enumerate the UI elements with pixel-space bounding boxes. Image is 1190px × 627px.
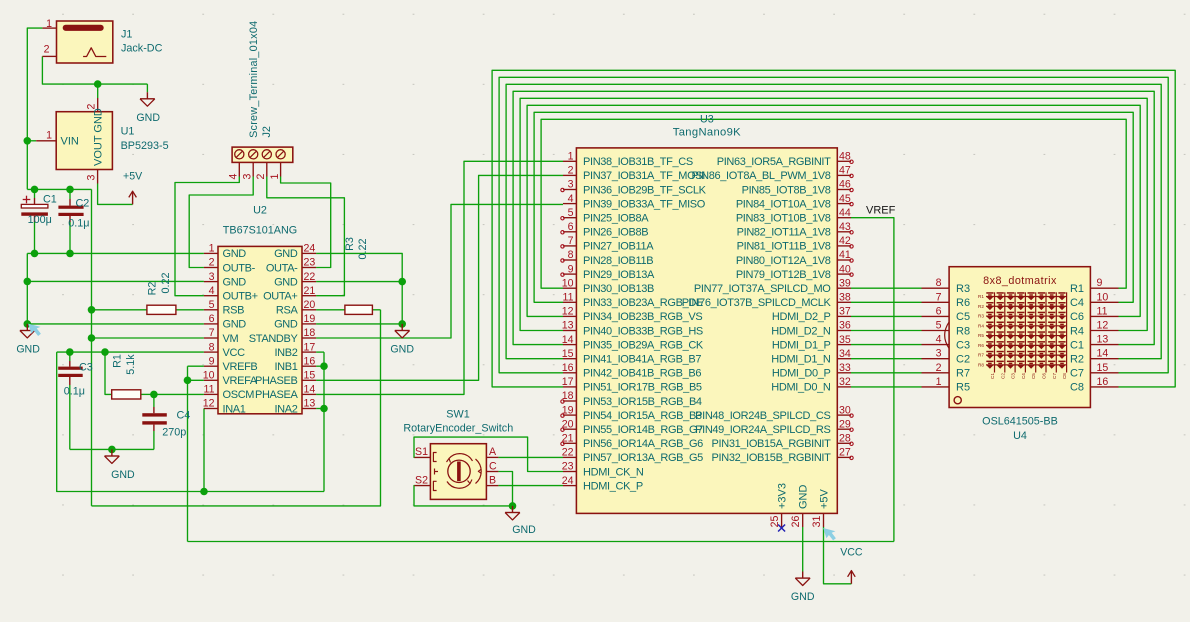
U4 pin 8 (R3): [922, 277, 971, 295]
svg-text:11: 11: [204, 384, 215, 396]
U3 pin 7 (PIN27_IOB11A): [563, 235, 654, 253]
svg-text:HDMI_D0_P: HDMI_D0_P: [772, 368, 831, 380]
U3 pin 30 (PIN48_IOR24B_SPILCD_CS): [695, 404, 851, 422]
svg-text:3: 3: [936, 348, 942, 360]
U4 left-edge arc: [945, 322, 949, 349]
svg-text:5: 5: [568, 207, 574, 219]
wire: U2 pin10 VREFA: [188, 379, 204, 381]
U3 pin 2 (PIN37_IOB31A_TF_MOSI): [563, 165, 705, 183]
U3 pin 23 (HDMI_CK_N): [562, 461, 644, 479]
U3 pin 22 (PIN57_IOR13A_RGB_G5): [562, 447, 703, 465]
svg-text:PIN54_IOR15A_RGB_B3: PIN54_IOR15A_RGB_B3: [583, 410, 702, 422]
svg-text:OUTB+: OUTB+: [223, 291, 258, 303]
svg-text:RotaryEncoder_Switch: RotaryEncoder_Switch: [403, 423, 513, 435]
svg-text:12: 12: [1097, 320, 1109, 332]
unconnected circle U3 pin 3: [561, 188, 564, 191]
svg-text:3: 3: [209, 271, 215, 283]
U3 pin 11 (PIN33_IOB23A_RGB_DE): [563, 292, 703, 310]
svg-text:A: A: [489, 446, 497, 458]
junction: C1 bottom: [31, 250, 39, 258]
svg-text:+3V3: +3V3: [776, 483, 788, 509]
svg-text:PIN38_IOB31B_TF_CS: PIN38_IOB31B_TF_CS: [583, 156, 693, 168]
capacitor C3 0.1u: [58, 361, 82, 385]
svg-text:PHASEA: PHASEA: [255, 389, 299, 401]
wire: U2 pin22 GND: [316, 281, 402, 283]
wire: U3 pin32 to dot-matrix pin1: [851, 386, 922, 388]
svg-text:GND: GND: [223, 319, 247, 331]
U3 pin 19 (PIN54_IOR15A_RGB_B3): [562, 404, 702, 422]
wire: R1 left lead and VCC tap: [105, 352, 112, 394]
svg-text:INB1: INB1: [274, 361, 297, 373]
wire: SW1 S2 to GND junction: [414, 486, 513, 506]
svg-text:+5V: +5V: [818, 488, 830, 509]
unconnected circle U3 pin 21: [561, 442, 564, 445]
wire: GND rail to U2 pin1: [27, 252, 204, 254]
wire: U3 pin36 to dot-matrix pin5: [851, 330, 922, 332]
U4 matrix column labels: [990, 373, 1067, 379]
svg-text:10: 10: [562, 277, 574, 289]
svg-text:19: 19: [304, 313, 316, 325]
capacitor C2 0.1u: [58, 199, 83, 222]
svg-text:4: 4: [228, 174, 240, 180]
svg-text:43: 43: [839, 221, 851, 233]
svg-text:HDMI_D1_P: HDMI_D1_P: [772, 339, 831, 351]
wire: U2 pin3 GND: [27, 280, 204, 282]
svg-text:PIN37_IOB31A_TF_MOSI: PIN37_IOB31A_TF_MOSI: [583, 170, 705, 182]
resistor R2 0.22: [147, 305, 176, 314]
svg-text:3: 3: [568, 179, 574, 191]
wire: C2 bottom lead: [69, 222, 71, 253]
svg-text:13: 13: [304, 398, 316, 410]
svg-text:R2: R2: [978, 304, 984, 309]
U2 pin 20 (RSA): [276, 299, 316, 317]
wire: J2 pin4 to U2 pin4 OUTB+: [175, 177, 239, 296]
wire: U3 pin39 to dot-matrix pin8: [851, 287, 922, 289]
U3 pin 13 (PIN40_IOB33B_RGB_HS): [562, 320, 703, 338]
wire: R2 left lead: [92, 309, 147, 311]
svg-text:PIN31_IOB15A_RGBINIT: PIN31_IOB15A_RGBINIT: [712, 438, 832, 450]
svg-text:4: 4: [568, 193, 574, 205]
svg-text:270p: 270p: [162, 427, 186, 439]
U4 pin 11 (C6): [1070, 305, 1119, 323]
U3 pin 32 (HDMI_D0_N): [771, 376, 851, 394]
unconnected circle U3 right pin row 3: [850, 188, 853, 191]
wire: U3 pin33 to dot-matrix pin2: [851, 372, 922, 374]
U3 pin 29 (PIN49_IOR24A_SPILCD_RS): [695, 418, 851, 436]
wire: C3 bottom lead: [69, 385, 71, 449]
svg-text:C4: C4: [177, 409, 191, 421]
svg-text:PIN30_IOB13B: PIN30_IOB13B: [583, 283, 654, 295]
U2 pin 19 (GND): [274, 313, 316, 331]
svg-text:VM: VM: [223, 333, 239, 345]
svg-text:U3: U3: [700, 114, 714, 126]
svg-text:18: 18: [304, 327, 316, 339]
wire: J2 pin3 to U2 pin2 OUTB-: [189, 177, 253, 268]
svg-text:2: 2: [209, 257, 215, 269]
U3 pin 35 (HDMI_D1_P): [772, 334, 851, 352]
wire: OSCM row to U2 pin11: [154, 393, 204, 395]
U2 pin 6 (GND): [204, 313, 246, 331]
wire: C2 top lead: [69, 189, 71, 199]
U4 pin 16 (C8): [1070, 376, 1119, 394]
svg-text:C: C: [489, 460, 497, 472]
U3 pin 42 (PIN81_IOT11B_1V8): [737, 235, 851, 253]
connector J2 Screw_Terminal_01x04: [232, 147, 293, 176]
junction: R1 / VCC row: [101, 348, 109, 356]
U3 pin 25 (+3V3): [769, 483, 789, 527]
svg-text:R4: R4: [978, 323, 984, 328]
svg-text:20: 20: [304, 299, 316, 311]
wire: VIN bottom run to R3: [92, 310, 381, 506]
svg-text:C3: C3: [1011, 373, 1016, 379]
U3 pin 4 (PIN39_IOB33A_TF_MISO): [563, 193, 706, 211]
U2 pin 9 (VREFB): [204, 355, 258, 373]
svg-text:B: B: [489, 474, 496, 486]
svg-text:8: 8: [209, 341, 215, 353]
svg-text:R3: R3: [344, 237, 356, 251]
unconnected circle U3 pin 7: [561, 245, 564, 248]
U3 pin 5 (PIN25_IOB8A): [563, 207, 649, 225]
svg-text:PIN49_IOR24A_SPILCD_RS: PIN49_IOR24A_SPILCD_RS: [695, 424, 830, 436]
svg-text:29: 29: [839, 418, 851, 430]
ground GND (U2 right): [401, 324, 403, 331]
unconnected circle U3 right pin row 21: [850, 442, 853, 445]
svg-text:PIN82_IOT11A_1V8: PIN82_IOT11A_1V8: [737, 227, 831, 239]
wire: J1 pin1 to VIN rail (left vertical): [27, 28, 42, 189]
svg-text:2: 2: [86, 104, 98, 110]
U2 pin 23 (OUTA-): [266, 257, 316, 275]
U2 pin 5 (RSB): [204, 299, 244, 317]
capacitor C1 100u (polarized): [21, 196, 48, 222]
U4 pin 12 (R4): [1070, 320, 1119, 338]
svg-text:12: 12: [203, 398, 215, 410]
svg-text:2: 2: [255, 174, 267, 180]
U2 pin 15 (PHASEB): [255, 370, 316, 388]
svg-text:15: 15: [304, 370, 316, 382]
svg-text:15: 15: [562, 348, 574, 360]
svg-text:38: 38: [839, 292, 851, 304]
unconnected circle U3 right pin row 19: [850, 414, 853, 417]
ground GND (U3 pin26): [802, 572, 804, 579]
svg-text:7: 7: [936, 291, 942, 303]
svg-text:TangNano9K: TangNano9K: [673, 127, 741, 139]
wire: U3 pin35 to dot-matrix pin4: [851, 344, 922, 346]
unconnected circle U3 right pin row 9: [850, 273, 853, 276]
wire: SW1 C to GND junction: [498, 472, 512, 506]
svg-text:OSL641505-BB: OSL641505-BB: [982, 416, 1058, 428]
wire: U3 pin10 over-the-top to dot-matrix pin9: [541, 119, 1126, 288]
U2 pin 17 (INB2): [274, 341, 316, 359]
wire: U3 pin16 over-the-top to dot-matrix pin15: [499, 77, 1168, 373]
svg-text:PIN48_IOR24B_SPILCD_CS: PIN48_IOR24B_SPILCD_CS: [695, 410, 830, 422]
svg-text:13: 13: [1097, 334, 1109, 346]
svg-text:23: 23: [304, 257, 316, 269]
unconnected circle U3 right pin row 4: [850, 202, 853, 205]
svg-text:13: 13: [562, 320, 574, 332]
svg-text:16: 16: [304, 355, 316, 367]
U4 pin 14 (R2): [1070, 348, 1119, 366]
svg-text:HDMI_CK_N: HDMI_CK_N: [583, 466, 644, 478]
svg-text:VCC: VCC: [840, 547, 863, 559]
unconnected circle U3 pin 9: [561, 273, 564, 276]
svg-text:Jack-DC: Jack-DC: [121, 42, 163, 54]
svg-text:28: 28: [839, 433, 851, 445]
U4 matrix row labels: [978, 294, 984, 367]
svg-text:GND: GND: [274, 319, 298, 331]
svg-text:U4: U4: [1013, 430, 1027, 442]
svg-text:S2: S2: [415, 474, 428, 486]
junction: INA1 / VCC bottom rail: [200, 488, 208, 496]
connector J1 Jack-DC: [42, 21, 112, 63]
svg-text:VREFA: VREFA: [223, 375, 258, 387]
wire: U2 pin16 INB1 link: [316, 365, 324, 367]
svg-text:PIN76_IOT37B_SPILCD_MCLK: PIN76_IOT37B_SPILCD_MCLK: [682, 297, 832, 309]
svg-text:Screw_Terminal_01x04: Screw_Terminal_01x04: [248, 21, 260, 138]
svg-text:1: 1: [46, 18, 52, 30]
svg-text:R6: R6: [978, 343, 984, 348]
svg-text:R1: R1: [112, 354, 124, 368]
svg-text:GND: GND: [791, 591, 815, 603]
mouse cursor (U3 pin31): [823, 528, 836, 540]
display U4 OSL641505-BB 8x8 dot matrix: [949, 267, 1090, 408]
unconnected circle U3 pin 6: [561, 231, 564, 234]
resistor R1 5.1k: [112, 390, 141, 399]
wire: INB vertical x=324: [323, 352, 325, 491]
svg-text:6: 6: [936, 305, 942, 317]
svg-text:C6: C6: [1042, 373, 1047, 379]
svg-text:SW1: SW1: [446, 409, 469, 421]
svg-text:C2: C2: [1000, 373, 1005, 379]
wire: R3 left lead from U2 pin20 RSA: [316, 309, 345, 311]
svg-text:PIN29_IOB13A: PIN29_IOB13A: [583, 269, 655, 281]
svg-text:15: 15: [1097, 362, 1109, 374]
svg-text:C5: C5: [1031, 373, 1036, 379]
U3 pin 9 (PIN29_IOB13A): [563, 263, 655, 281]
svg-text:14: 14: [304, 384, 316, 396]
U3 pin 31 (+5V): [811, 488, 831, 527]
svg-text:40: 40: [839, 263, 851, 275]
svg-text:GND: GND: [274, 276, 298, 288]
mouse cursor (left GND): [28, 324, 41, 336]
svg-text:HDMI_D2_P: HDMI_D2_P: [772, 311, 831, 323]
U3 pin 45 (PIN84_IOT10A_1V8): [736, 193, 851, 211]
svg-text:PIN53_IOR15B_RGB_B4: PIN53_IOR15B_RGB_B4: [583, 396, 702, 408]
ground GND (left rail): [26, 324, 28, 331]
svg-text:26: 26: [790, 516, 802, 528]
svg-text:46: 46: [839, 179, 851, 191]
wire: C1 bottom lead: [34, 222, 36, 253]
svg-text:VIN: VIN: [61, 136, 79, 148]
junction: C2 top: [66, 186, 74, 194]
svg-text:PIN25_IOB8A: PIN25_IOB8A: [583, 213, 649, 225]
U3 pin 28 (PIN31_IOB15A_RGBINIT): [712, 433, 851, 451]
svg-text:9: 9: [568, 263, 574, 275]
U3 pin 6 (PIN26_IOB8B): [563, 221, 648, 239]
svg-text:1: 1: [209, 243, 215, 255]
svg-text:4: 4: [936, 334, 942, 346]
svg-text:1: 1: [936, 376, 942, 388]
svg-text:5: 5: [209, 299, 215, 311]
junction: C1 top: [31, 186, 39, 194]
svg-text:OUTA+: OUTA+: [263, 291, 297, 303]
svg-text:24: 24: [304, 243, 316, 255]
svg-text:4: 4: [209, 285, 215, 297]
svg-text:14: 14: [562, 334, 574, 346]
wire: VREF bottom run: [188, 541, 894, 543]
svg-text:GND: GND: [274, 248, 298, 260]
svg-text:8: 8: [936, 277, 942, 289]
U2 pin 13 (INA2): [274, 398, 316, 416]
U4 pin 2 (R7): [922, 362, 971, 380]
svg-text:J2: J2: [261, 126, 273, 137]
svg-text:INA1: INA1: [223, 403, 246, 415]
wire: VCC row to U2 pin8: [57, 351, 204, 353]
U3 pin 33 (HDMI_D0_P): [772, 362, 851, 380]
svg-text:HDMI_CK_P: HDMI_CK_P: [583, 480, 643, 492]
svg-text:2: 2: [568, 165, 574, 177]
U2 pin 1 (GND): [204, 243, 246, 261]
svg-text:C1: C1: [1070, 339, 1084, 351]
svg-text:PIN32_IOB15B_RGBINIT: PIN32_IOB15B_RGBINIT: [712, 452, 832, 464]
svg-text:C7: C7: [1052, 373, 1057, 379]
svg-text:3: 3: [86, 175, 98, 181]
svg-text:PIN81_IOT11B_1V8: PIN81_IOT11B_1V8: [737, 241, 831, 253]
junction: SW1 GND node: [509, 502, 517, 510]
U2 pin 18 (STANDBY): [249, 327, 316, 345]
wire: GND left rail: [26, 253, 28, 324]
U2 pin 22 (GND): [274, 271, 316, 289]
wire: R1 right lead: [141, 393, 154, 395]
wire: VIN top rail to C1/C2 tops: [27, 188, 91, 190]
svg-text:33: 33: [839, 362, 851, 374]
wire: U2 pin15 PHASEB to U3 pin2: [316, 175, 563, 380]
U4 pin 15 (C7): [1070, 362, 1119, 380]
svg-text:PIN26_IOB8B: PIN26_IOB8B: [583, 227, 648, 239]
svg-text:PIN83_IOT10B_1V8: PIN83_IOT10B_1V8: [736, 213, 831, 225]
svg-text:C7: C7: [1070, 368, 1084, 380]
svg-text:C8: C8: [1070, 382, 1084, 394]
U3 pin 20 (PIN55_IOR14B_RGB_G7): [562, 418, 703, 436]
U3 pin 48 (PIN63_IOR5A_RGBINIT): [717, 151, 851, 169]
svg-text:10: 10: [1097, 291, 1109, 303]
U4 pin 9 (R1): [1070, 277, 1119, 295]
svg-text:C3: C3: [956, 339, 970, 351]
svg-text:9: 9: [209, 355, 215, 367]
wire: U2 pin6 GND: [27, 323, 204, 325]
svg-text:10: 10: [203, 370, 215, 382]
ground GND (C3/C4): [111, 449, 113, 456]
svg-text:C2: C2: [76, 198, 90, 210]
svg-text:R6: R6: [956, 297, 970, 309]
wire: U3 pin26 GND drop: [802, 527, 804, 572]
U3 pin 39 (PIN77_IOT37A_SPILCD_MO): [694, 277, 851, 295]
wire: U2 pin24 GND to right GND: [316, 253, 402, 324]
svg-text:RSB: RSB: [223, 305, 245, 317]
svg-text:3: 3: [241, 174, 253, 180]
U4 bottom-left circle: [954, 397, 961, 404]
wire: U3 pin31 +5V to VCC: [824, 527, 852, 584]
wire: U3 pin34 to dot-matrix pin3: [851, 358, 922, 360]
svg-text:R5: R5: [956, 382, 970, 394]
svg-text:PIN56_IOR14A_RGB_G6: PIN56_IOR14A_RGB_G6: [583, 438, 703, 450]
svg-text:GND: GND: [390, 344, 414, 356]
junction: C3 top / VCC row: [66, 348, 74, 356]
U3 pin 40 (PIN79_IOT12B_1V8): [736, 263, 851, 281]
svg-text:R2: R2: [147, 282, 159, 296]
U4 pin 13 (C1): [1070, 334, 1119, 352]
wire: U1 pin2 (GND) drop: [97, 84, 99, 98]
svg-text:PIN77_IOT37A_SPILCD_MO: PIN77_IOT37A_SPILCD_MO: [694, 283, 831, 295]
wire: J2 pin2 to U2 pin21 OUTA+: [267, 177, 345, 296]
U4 pin 10 (C4): [1070, 291, 1119, 309]
junction: INA2 on x=324: [320, 405, 328, 413]
svg-text:PIN36_IOB29B_TF_SCLK: PIN36_IOB29B_TF_SCLK: [583, 184, 707, 196]
wire: U3 pin37 to dot-matrix pin6: [851, 315, 922, 317]
svg-text:6: 6: [568, 221, 574, 233]
resistor R3 0.22: [345, 305, 373, 314]
svg-text:16: 16: [562, 362, 574, 374]
U3 pin 24 (HDMI_CK_P): [562, 475, 643, 493]
U3 pin 41 (PIN80_IOT12A_1V8): [736, 249, 851, 267]
svg-text:GND: GND: [223, 276, 247, 288]
svg-text:PIN85_IOT8B_1V8: PIN85_IOT8B_1V8: [742, 184, 831, 196]
svg-text:C8: C8: [1062, 373, 1067, 379]
unconnected circle U3 right pin row 2: [850, 174, 853, 177]
U3 pin 17 (PIN51_IOR17B_RGB_B5): [562, 376, 702, 394]
svg-text:HDMI_D0_N: HDMI_D0_N: [771, 382, 831, 394]
svg-text:PIN34_IOB23B_RGB_VS: PIN34_IOB23B_RGB_VS: [583, 311, 702, 323]
U2 pin 8 (VCC): [204, 341, 245, 359]
svg-text:TB67S101ANG: TB67S101ANG: [223, 225, 297, 237]
U2 pin 7 (VM): [204, 327, 239, 345]
svg-text:INA2: INA2: [274, 403, 297, 415]
wire: C3/C4 bottom GND rail: [70, 448, 154, 450]
capacitor C4 270p: [142, 407, 167, 431]
junction: INB1 on x=324: [320, 362, 328, 370]
svg-text:17: 17: [304, 341, 316, 353]
svg-text:PHASEB: PHASEB: [255, 375, 298, 387]
wire: U2 pin12 INA1 drop: [203, 409, 205, 492]
U2 pin 21 (OUTA+): [263, 285, 316, 303]
svg-text:PIN86_IOT8A_BL_PWM_1V8: PIN86_IOT8A_BL_PWM_1V8: [691, 170, 830, 182]
wire: U2 pin14 PHASEA to U3 pin1: [316, 161, 563, 394]
svg-text:C4: C4: [1021, 373, 1026, 379]
U3 pin 26 (GND): [790, 485, 810, 528]
svg-text:PIN28_IOB11B: PIN28_IOB11B: [583, 255, 653, 267]
U4 LED matrix grid: [986, 292, 1067, 372]
wire: C1 top lead: [34, 189, 36, 198]
regulator U1 BP5293-5: [36, 98, 112, 184]
svg-text:1: 1: [269, 174, 281, 180]
svg-text:5.1k: 5.1k: [125, 354, 137, 375]
wire: U3 pin13 over-the-top to dot-matrix pin12: [520, 98, 1147, 330]
svg-text:PIN51_IOR17B_RGB_B5: PIN51_IOR17B_RGB_B5: [583, 382, 702, 394]
U2 pin 3 (GND): [204, 271, 246, 289]
unconnected circle U3 right pin row 1: [850, 160, 853, 163]
wire: VIN vertical bus x=91.5: [91, 189, 93, 506]
svg-text:+5V: +5V: [123, 171, 143, 183]
wire: U2 pin18 STANDBY to U3 pin4: [316, 204, 563, 338]
wire: U2 pin7 VM: [92, 337, 204, 339]
svg-text:23: 23: [562, 461, 574, 473]
svg-text:9: 9: [1097, 277, 1103, 289]
svg-text:0.1μ: 0.1μ: [68, 218, 89, 230]
power +5V: [132, 192, 134, 204]
svg-text:PIN55_IOR14B_RGB_G7: PIN55_IOR14B_RGB_G7: [583, 424, 703, 436]
wire: U3 pin38 to dot-matrix pin7: [851, 301, 922, 303]
unconnected circle U3 right pin row 20: [850, 428, 853, 431]
wire: R3 right lead: [372, 309, 380, 311]
